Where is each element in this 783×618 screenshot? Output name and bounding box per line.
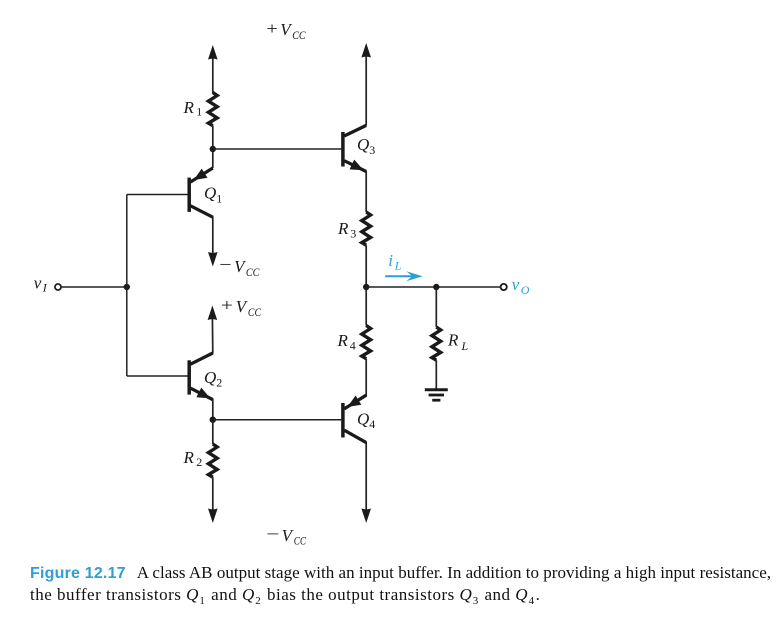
svg-text:4: 4: [350, 338, 356, 352]
output terminal vO: [501, 284, 507, 290]
ground: [425, 390, 448, 401]
svg-text:1: 1: [196, 105, 202, 119]
svg-text:3: 3: [350, 227, 356, 241]
wire output node to vO terminal: [366, 286, 500, 288]
svg-text:L: L: [394, 259, 402, 273]
wire junction down to R2: [212, 420, 214, 444]
label Q2: [204, 368, 222, 390]
svg-text:Q: Q: [357, 135, 369, 154]
svg-text:v: v: [512, 275, 520, 294]
label -VCC (Q1): [219, 255, 260, 279]
label vO (blue): [512, 275, 530, 297]
transistor Q3 (npn): [343, 125, 366, 175]
svg-text:4: 4: [369, 417, 375, 431]
node output junction: [363, 284, 369, 290]
-VCC arrow (R2): [208, 509, 218, 524]
svg-text:V: V: [236, 297, 249, 316]
node junction R1/Q1/Q3-base: [210, 146, 216, 152]
+VCC supply arrow (Q2 collector): [208, 306, 218, 354]
label R4: [337, 331, 356, 353]
wire RL to ground: [435, 360, 437, 389]
svg-text:L: L: [461, 339, 469, 353]
resistor R4: [362, 326, 371, 359]
svg-text:Q: Q: [204, 368, 216, 387]
node input junction: [124, 284, 130, 290]
svg-text:CC: CC: [294, 534, 307, 548]
resistor R2: [208, 444, 217, 477]
label R1: [183, 98, 203, 119]
label R3: [337, 219, 356, 241]
label R2: [183, 448, 203, 469]
svg-text:CC: CC: [246, 265, 260, 279]
label Q3: [357, 135, 375, 157]
svg-text:I: I: [42, 281, 48, 295]
svg-text:R: R: [447, 331, 459, 350]
svg-text:3: 3: [369, 143, 375, 157]
svg-text:CC: CC: [248, 305, 262, 319]
resistor R1: [208, 93, 217, 126]
svg-text:v: v: [34, 273, 42, 292]
wire node to Q3 base: [213, 148, 342, 150]
wire vI to input junction: [61, 286, 127, 288]
label RL: [447, 331, 469, 354]
resistor RL: [432, 327, 441, 360]
wire Q4 collector down: [365, 442, 367, 510]
svg-text:+: +: [266, 19, 278, 38]
svg-text:i: i: [388, 251, 393, 270]
svg-text:O: O: [521, 283, 530, 297]
svg-text:Q: Q: [357, 410, 369, 429]
svg-text:2: 2: [216, 376, 222, 390]
current arrow iL (blue): [385, 271, 422, 281]
svg-text:V: V: [282, 526, 295, 545]
wire R3 to output node: [365, 245, 367, 287]
wire junction to Q4 base: [213, 419, 342, 421]
wire R2 to -VCC arrow: [212, 477, 214, 510]
svg-text:2: 2: [196, 455, 202, 469]
label +VCC (top): [266, 19, 306, 42]
svg-text:Q: Q: [204, 184, 216, 203]
node RL junction: [433, 284, 439, 290]
-VCC arrow (Q4 collector): [361, 509, 371, 524]
label -VCC (bottom shared): [266, 525, 307, 548]
wire Q3 emitter to R3: [365, 171, 367, 212]
wire Q2 base: [127, 375, 188, 377]
wire Q1 base: [127, 194, 188, 196]
caption: [30, 562, 783, 612]
resistor R3: [362, 212, 371, 245]
label +VCC (Q2): [221, 295, 262, 319]
wire Q2 emitter to junction: [212, 399, 214, 420]
transistor Q2 (npn): [189, 353, 213, 403]
label Q4: [357, 410, 375, 432]
wire R1 bottom to Q1 emitter: [212, 126, 214, 168]
svg-text:CC: CC: [292, 28, 306, 42]
svg-text:R: R: [337, 331, 349, 350]
label iL (blue): [388, 251, 402, 273]
node Q2-emitter/R2/Q4-base junction: [210, 417, 216, 423]
wire R4 to Q4 emitter: [365, 359, 367, 396]
svg-text:+: +: [221, 295, 233, 314]
wire Q1 collector down: [212, 217, 214, 255]
svg-text:R: R: [183, 448, 195, 467]
wire RL junction down to RL: [435, 287, 437, 327]
input terminal vI: [55, 284, 61, 290]
wire vertical base bus: [126, 195, 128, 377]
+VCC supply arrow (top left, above R1): [208, 45, 218, 93]
svg-text:R: R: [183, 98, 195, 117]
label Q1: [204, 184, 222, 206]
wire output node down to R4: [365, 287, 367, 326]
svg-text:−: −: [219, 255, 231, 274]
transistor Q1 (pnp): [189, 168, 213, 217]
+VCC supply arrow (Q3 collector): [361, 43, 371, 126]
label vI: [34, 273, 48, 294]
svg-text:−: −: [266, 525, 279, 544]
svg-text:1: 1: [216, 191, 222, 205]
svg-text:R: R: [337, 219, 349, 238]
transistor Q4 (pnp): [343, 395, 366, 442]
-VCC arrow (Q1 collector): [208, 252, 218, 267]
